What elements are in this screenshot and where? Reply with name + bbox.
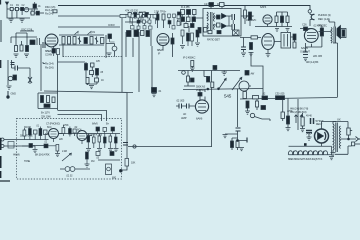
ground G19 [239, 148, 244, 151]
capacitor C43 [148, 20, 151, 23]
resistor R21 [187, 76, 190, 82]
trimmer C33 [28, 76, 32, 84]
section: screen column mid-left [7, 60, 105, 89]
trimmer C5 [37, 38, 40, 45]
resistor R56 [57, 49, 60, 55]
trimmer arrow 1 [75, 31, 79, 35]
tube V6 6AV6 [195, 100, 208, 113]
fuse tick [350, 130, 352, 132]
dashed enclosure [17, 119, 122, 180]
resistor chain R11 [244, 10, 247, 18]
wire t3 [274, 37, 295, 42]
resistor R23 [243, 92, 246, 99]
wire c66 [98, 131, 113, 134]
wire screen feed [58, 61, 85, 63]
wire grid A [22, 127, 49, 140]
label left v3 [246, 14, 256, 22]
resistor R30 [52, 97, 55, 103]
rectifier cathode [325, 132, 326, 140]
label c59 [38, 5, 42, 8]
resistor R24 [253, 96, 259, 99]
trimmer C7 [68, 37, 71, 45]
tone caps circles [65, 167, 70, 172]
resistor R4 [15, 46, 18, 52]
wire tp3 [255, 99, 271, 121]
wire c72 [110, 39, 115, 43]
capacitor C27 [262, 96, 268, 100]
resistor R68 [191, 33, 194, 41]
coil L2 [30, 40, 35, 45]
section: 2nd IF / driver row y37 [240, 33, 296, 57]
capacitor C46 [149, 26, 153, 29]
resistor R33 [62, 128, 65, 134]
svg-text:DET AVC: DET AVC [246, 18, 256, 22]
label row avc2 [129, 22, 133, 25]
wire speaker return vertical [337, 44, 339, 98]
label above det [204, 2, 225, 6]
label row avc1 [139, 11, 159, 15]
capacitor C61 [34, 130, 38, 134]
capacitor C2 [31, 11, 34, 15]
resistor R19 [293, 42, 296, 48]
wire c20 [300, 28, 312, 30]
wire y37 [240, 37, 261, 39]
wire r62 feed [287, 99, 289, 116]
resistor R70 [208, 31, 212, 34]
heater H7 [318, 151, 322, 155]
tube V1 6BE6 [45, 34, 58, 47]
wire v2 leads [163, 33, 173, 57]
ground G27 [55, 151, 60, 157]
svg-text:B+ 117V: B+ 117V [41, 111, 50, 115]
resistor R45 [120, 15, 126, 18]
resistor R16 [251, 36, 258, 39]
label cans [306, 115, 312, 118]
ground G6 [249, 53, 254, 56]
capacitor C40 [131, 14, 134, 18]
svg-text:47K .05 220: 47K .05 220 [125, 9, 139, 13]
capacitor C60 [52, 49, 56, 54]
ground G17 [85, 159, 90, 167]
capacitor C15 [145, 13, 148, 18]
wire r21 [184, 71, 195, 87]
ground G22 [329, 157, 334, 160]
ground G7 [266, 54, 271, 57]
capacitor C59 [33, 4, 37, 8]
crystal Y1 [233, 30, 240, 36]
wire if2 col [183, 36, 198, 46]
wire c37 [225, 131, 238, 134]
tube V3 6AT6 [263, 15, 272, 24]
label 6AT6 [260, 5, 267, 9]
end dot [119, 169, 122, 172]
wire heater junction [331, 146, 333, 155]
resistor R38 [104, 137, 107, 143]
section: power supply [286, 99, 360, 156]
tone cap 2 [70, 167, 75, 172]
junction dot ac [348, 138, 350, 140]
wire output grid line [240, 98, 337, 100]
IF transformer T6 secondary [187, 10, 191, 15]
label tag rows mid [45, 62, 54, 70]
resistor R67 [187, 33, 190, 41]
resistor R31 [85, 64, 88, 71]
capacitor C67 [103, 128, 107, 132]
label 6BA6 [157, 48, 164, 56]
wire c22 [214, 70, 216, 71]
tube V4 internals [264, 37, 272, 45]
trimmer C10 [90, 37, 93, 45]
wire tube bottom [321, 143, 323, 146]
arrow B+ 2 [300, 115, 303, 123]
capacitor C20 [304, 27, 308, 31]
svg-text:OSC COIL: OSC COIL [21, 28, 33, 32]
trimmer arrow 2 [88, 31, 92, 35]
wire AF coupling corner [128, 146, 212, 148]
svg-text:RATIO DET: RATIO DET [207, 38, 220, 42]
label jack rows [302, 13, 331, 28]
svg-text:40-40: 40-40 [306, 115, 312, 118]
coil L1 [24, 7, 28, 11]
wire chassis bus left [44, 91, 133, 93]
capacitor C37 [236, 128, 241, 131]
test point TP1 [112, 46, 117, 51]
wire avc verticals [133, 18, 175, 29]
svg-text:470K 47K .005: 470K 47K .005 [88, 134, 103, 137]
heater H2 [293, 151, 297, 155]
tube V3 internals [265, 18, 271, 21]
svg-text:Rx (5-6): Rx (5-6) [45, 66, 54, 70]
capacitor C35 [96, 152, 100, 156]
label 6AQ5 [300, 46, 310, 54]
wire osc link [11, 31, 37, 43]
capacitor C28 coupling [276, 96, 285, 100]
wire r10 [158, 12, 164, 28]
svg-text:470K: 470K [63, 123, 69, 127]
filter resistor R62 [287, 116, 290, 124]
resistor R50 [168, 14, 171, 18]
svg-text:220 .005: 220 .005 [313, 54, 323, 58]
wire row2 [54, 139, 121, 161]
wire v6 top [200, 89, 205, 100]
resistor R14 [281, 16, 284, 23]
section: output stage 6AQ5 [300, 19, 346, 61]
resistor R71 [217, 31, 221, 34]
resistor R44 [236, 141, 239, 148]
svg-text:.02 .02: .02 .02 [66, 175, 73, 178]
heater H5 [308, 151, 312, 155]
resistor R57 [191, 61, 194, 67]
wire tuning ladder bottom rail [59, 44, 104, 46]
ground G25 [190, 67, 195, 72]
heater H4 [303, 151, 307, 155]
wire vertical x63 [62, 45, 64, 57]
capacitor C14 [134, 13, 137, 18]
label mid box [20, 134, 33, 138]
resistor R17 [250, 43, 253, 50]
wire r43 [232, 134, 247, 150]
ground G11 [7, 86, 12, 89]
wire resistor drops [88, 134, 116, 149]
capacitor C18 [232, 24, 235, 30]
svg-text:6BE6 6BA6 6AT6 6AV6 6AQ5 5Y3: 6BE6 6BA6 6AT6 6AV6 6AQ5 5Y3 [288, 158, 323, 161]
capacitor C11 [141, 31, 145, 36]
ground G1 [9, 19, 14, 22]
svg-text:R2 1M: R2 1M [24, 126, 30, 129]
ground G4 [24, 54, 29, 57]
wire vertical x57 [57, 48, 59, 110]
svg-text:500K AS: 500K AS [196, 85, 205, 89]
wire jack [310, 13, 312, 26]
wire vertical x211 [211, 71, 213, 148]
wire divider frame [38, 93, 58, 109]
svg-text:22K: 22K [59, 138, 63, 141]
svg-text:PHONO (3): PHONO (3) [318, 13, 331, 17]
svg-text:IF-2 455KC: IF-2 455KC [183, 56, 195, 60]
wire det out [241, 6, 250, 27]
trimmer C8 [73, 37, 76, 45]
capacitor C51 [217, 15, 221, 19]
tube V2 internals [159, 37, 167, 43]
diag arrow 2 [62, 153, 71, 161]
svg-text:1ST AF: 1ST AF [246, 14, 255, 18]
electrolytic C38 [311, 118, 314, 124]
svg-text:47 220: 47 220 [139, 11, 147, 14]
svg-text:6C4: 6C4 [47, 125, 52, 129]
svg-text:6BE6: 6BE6 [45, 49, 52, 53]
capacitor C69 [91, 63, 95, 67]
wire osc row [30, 12, 44, 14]
ground G5 [241, 53, 246, 56]
capacitor C55 [204, 28, 208, 33]
section: heater string [288, 143, 334, 161]
ground G18 [223, 135, 228, 138]
edge blob 1 [0, 138, 1, 141]
ground G29 transformer [331, 150, 336, 156]
svg-text:2.2M: 2.2M [154, 11, 159, 14]
tone arrow [218, 78, 226, 90]
svg-text:AF: AF [183, 112, 187, 116]
resistor R48 [143, 20, 146, 23]
wire v4 bottom [267, 50, 269, 54]
wire c59 [34, 2, 36, 11]
svg-text:6AT6: 6AT6 [260, 5, 267, 9]
label if3 [181, 5, 190, 9]
ground G9 [222, 71, 228, 76]
ground G21 [307, 133, 312, 140]
ground G26 [33, 150, 38, 153]
paper background [0, 0, 360, 182]
label 545 [224, 94, 232, 99]
ground G30 [195, 43, 200, 46]
ground G28 [300, 126, 305, 132]
resistor R32 [96, 69, 99, 76]
wire row low [22, 145, 56, 148]
svg-text:6AV6: 6AV6 [92, 122, 98, 126]
svg-text:C7 (PHONO): C7 (PHONO) [46, 122, 60, 126]
speaker LS1 [337, 26, 346, 39]
resistor R26 [256, 101, 259, 107]
capacitor C64 [44, 144, 48, 148]
capacitor C53 [178, 12, 182, 17]
IF transformer T1 can [127, 31, 132, 37]
svg-text:AW(4): AW(4) [13, 153, 20, 157]
svg-text:PRI SEC: PRI SEC [318, 25, 327, 28]
terminal tag T1 [53, 10, 57, 13]
wire v5 cathode [306, 26, 322, 52]
heater H6 [313, 151, 317, 155]
capacitor C54 [178, 20, 182, 25]
capacitor C49 [177, 15, 180, 19]
tube V5 6AQ5 [304, 29, 318, 43]
label osc [21, 28, 33, 32]
label heaters [288, 158, 323, 161]
ground G8 [303, 58, 308, 61]
section: tuning ladder [62, 31, 117, 57]
resistor R25 [246, 101, 249, 108]
section: converter [11, 28, 58, 58]
wire AF bus mid [183, 89, 263, 90]
capacitor C47 [173, 14, 176, 18]
capacitor C24 [198, 93, 202, 97]
tube V2 6BA6 [157, 34, 169, 46]
wire c19 [243, 38, 245, 53]
wire vertical x298 [297, 99, 299, 130]
label b1 [251, 73, 255, 76]
T3 internals [284, 34, 288, 47]
ground G2 [20, 19, 25, 22]
ground G10 [245, 108, 250, 114]
resistor R7 [171, 38, 174, 44]
wire cap wire x237 [237, 89, 239, 128]
capacitor C48 [172, 26, 175, 30]
resistor R51 [168, 21, 171, 25]
svg-text:6.8K: 6.8K [45, 133, 50, 136]
ground G24 [286, 29, 290, 32]
test point TP2 [182, 71, 186, 75]
ground G20 [286, 124, 291, 131]
capacitor C26 [187, 104, 190, 109]
label 6AV6 [196, 117, 203, 121]
label xx [337, 118, 341, 122]
junction blob heater [304, 143, 307, 146]
wire transformer top left [333, 122, 336, 125]
antenna [6, 2, 9, 9]
output component box [106, 164, 112, 175]
capacitor C41 [148, 15, 151, 19]
small circle near box [133, 145, 136, 148]
label specks ant row [10, 4, 34, 12]
capacitor C52 [217, 23, 221, 27]
resistor R59 [29, 129, 32, 136]
svg-text:545: 545 [224, 94, 232, 99]
svg-text:TONE: TONE [24, 160, 31, 163]
resistor R6 [26, 46, 29, 52]
resistor R40 [115, 137, 118, 143]
diode D1 [222, 14, 227, 19]
resistor R55 [191, 24, 195, 28]
label tp bplus [160, 11, 167, 14]
section: AVC network grid [120, 11, 180, 30]
resistor R54 [192, 17, 196, 22]
wire det inner [213, 16, 233, 26]
input terminal 2 [1, 145, 4, 148]
arrow B+ 1 [295, 115, 298, 123]
svg-text:REC (1-2): REC (1-2) [318, 17, 329, 21]
capacitor C12 [146, 31, 150, 37]
capacitor C31 [44, 104, 50, 107]
edge mark left upper [0, 60, 2, 68]
svg-text:TP B+: TP B+ [160, 11, 167, 14]
junction dot vol1 [207, 88, 209, 90]
label b-plus pairs [290, 107, 308, 115]
capacitor C65 [29, 144, 33, 148]
diode D2 [222, 24, 227, 29]
heater H1 [288, 151, 292, 155]
wire grid path [176, 105, 196, 107]
label divider [41, 111, 51, 119]
label gang [92, 31, 96, 34]
junction dot vol2 [218, 88, 220, 90]
edge mark left low [0, 156, 2, 168]
wire grid B [22, 134, 64, 150]
tube V7B [77, 131, 87, 141]
resistor R39 [109, 136, 112, 142]
coil L4 [101, 38, 104, 44]
wire left edge artifact [0, 20, 2, 42]
resistor R43 [231, 141, 234, 148]
switch box SW1 [352, 142, 355, 146]
capacitor C58 [184, 24, 188, 28]
wire c60 [53, 47, 55, 56]
svg-text:IF-3 455: IF-3 455 [181, 5, 190, 9]
capacitor C72 [108, 34, 112, 39]
svg-text:AW (2) RD (5-6): AW (2) RD (5-6) [290, 110, 307, 114]
resistor R36 [93, 137, 96, 143]
volume pot VR1 [239, 81, 249, 91]
heater ticks [293, 151, 323, 155]
capacitor C62 [44, 130, 48, 135]
labels under bus [63, 123, 78, 129]
section: headphone jack top right [300, 10, 331, 31]
section: 6AT6 stage [246, 5, 292, 32]
wire drops [125, 17, 148, 22]
wire tone [60, 168, 90, 170]
tube V5 internals [307, 33, 316, 39]
ac plug marks [356, 137, 360, 142]
section: misc labels [108, 24, 319, 64]
wire vertical x152 [151, 46, 153, 88]
wire antenna row [7, 8, 38, 10]
label vol [196, 85, 205, 93]
capacitor C1 [21, 7, 24, 10]
resistor R61 [56, 145, 59, 152]
label 5Y3 [316, 119, 325, 126]
resistor R1 [10, 7, 13, 10]
wire tuning ladder top rail [59, 34, 104, 36]
svg-text:CONV: CONV [45, 53, 53, 57]
input block [8, 142, 14, 149]
svg-text:1K: 1K [101, 79, 104, 82]
ground G3 [14, 54, 19, 57]
wire heater top rail [289, 145, 332, 147]
svg-text:1M: 1M [91, 159, 94, 163]
ground G16 [114, 149, 119, 152]
svg-text:C30 .005: C30 .005 [275, 92, 285, 96]
terminal blob [7, 96, 10, 99]
label 6BE6 [45, 49, 53, 57]
resistor R5 [20, 45, 23, 51]
